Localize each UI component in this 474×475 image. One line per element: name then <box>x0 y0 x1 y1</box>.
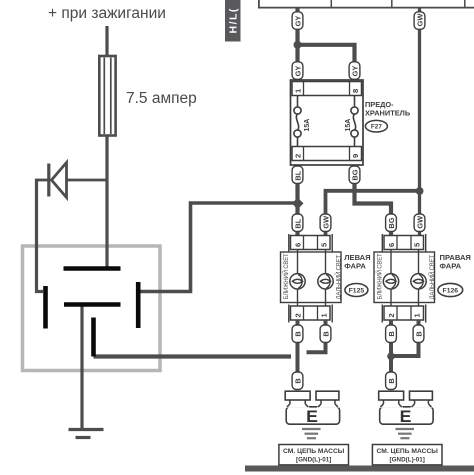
svg-text:ДАЛЬНИЙ СВЕТ: ДАЛЬНИЙ СВЕТ <box>428 255 436 300</box>
svg-text:15A: 15A <box>304 119 311 132</box>
ground point E right <box>379 391 433 426</box>
wire relay to BL junction <box>139 203 295 292</box>
connector GY pin1 <box>292 62 303 80</box>
connector BL pin2 <box>292 166 303 184</box>
fuse element 15A left <box>294 96 301 147</box>
ground hatch left <box>302 429 321 438</box>
svg-text:6: 6 <box>293 243 302 247</box>
junction BL <box>292 198 304 210</box>
connector B left ground <box>292 372 303 390</box>
svg-text:15A: 15A <box>345 119 352 132</box>
wire right lamp pin2 B down <box>389 320 393 373</box>
svg-text:2: 2 <box>293 313 302 317</box>
svg-text:БЛИЖНИЙ СВЕТ: БЛИЖНИЙ СВЕТ <box>282 253 290 299</box>
wire left lamp pin2 B down <box>296 320 300 373</box>
svg-text:9: 9 <box>351 154 360 158</box>
ground symbol <box>69 430 104 438</box>
ground point E left <box>285 391 339 426</box>
wire BL fuse output <box>295 165 299 235</box>
designator F125 <box>345 284 368 297</box>
wire relay lower contact to left headlamp ground <box>94 354 292 358</box>
label left lamp <box>344 253 370 270</box>
note box right ground <box>372 445 442 465</box>
wire BG fuse output <box>355 165 392 235</box>
svg-text:ФАРА: ФАРА <box>344 261 366 270</box>
wire GY from switch <box>295 8 299 81</box>
connector BL left lamp <box>292 214 303 232</box>
svg-text:F27: F27 <box>371 124 382 131</box>
connector B right ground <box>386 372 397 390</box>
connector B left lamp pin2 <box>292 325 303 343</box>
connector GY top <box>292 12 303 30</box>
svg-text:ДАЛЬНИЙ СВЕТ: ДАЛЬНИЙ СВЕТ <box>335 255 343 300</box>
wire diode to main wire <box>66 179 107 182</box>
relay contact left bar <box>43 286 48 329</box>
connector GY pin8 <box>349 62 360 80</box>
svg-text:2: 2 <box>293 154 302 158</box>
relay contact lower bar <box>91 318 96 357</box>
svg-text:GW: GW <box>415 216 424 229</box>
svg-text:F126: F126 <box>443 288 459 295</box>
svg-text:BG: BG <box>350 169 359 180</box>
svg-text:[GND(L)-01]: [GND(L)-01] <box>296 456 331 463</box>
wire ignition to fuse <box>105 26 108 56</box>
wire GY branch to pin 8 <box>298 45 355 81</box>
svg-text:СМ. ЦЕПЬ МАССЫ: СМ. ЦЕПЬ МАССЫ <box>377 448 439 455</box>
svg-text:B: B <box>387 378 396 383</box>
svg-text:GW: GW <box>321 216 330 229</box>
svg-text:2: 2 <box>387 313 396 317</box>
svg-text:B: B <box>387 331 396 336</box>
svg-text:E: E <box>306 408 318 426</box>
connector BG right lamp <box>386 214 397 232</box>
fuse 7.5A <box>99 56 115 136</box>
svg-text:GW: GW <box>415 14 424 27</box>
H/L switch label box <box>225 0 241 42</box>
junction GW <box>416 187 424 195</box>
connector B right lamp pin2 <box>386 325 397 343</box>
wire GW from switch <box>418 8 421 235</box>
wire diode left lead <box>37 179 49 182</box>
svg-text:H/L(: H/L( <box>228 7 240 33</box>
relay contact top bar <box>64 266 121 271</box>
connector BG pin9 <box>349 166 360 184</box>
svg-text:+ при зажигании: + при зажигании <box>48 5 166 22</box>
svg-text:ХРАНИТЕЛЬ: ХРАНИТЕЛЬ <box>365 108 411 117</box>
fuse element 15A right <box>351 96 358 147</box>
svg-text:GY: GY <box>293 16 302 27</box>
connector B right lamp pin1 <box>413 325 424 343</box>
svg-text:B: B <box>293 331 302 336</box>
svg-text:GY: GY <box>293 66 302 77</box>
diode D1 <box>49 163 67 198</box>
wire relay middle contact to ground <box>80 305 83 430</box>
svg-text:6: 6 <box>387 243 396 247</box>
designator F126 <box>438 283 463 296</box>
svg-text:BG: BG <box>387 217 396 228</box>
svg-text:ФАРА: ФАРА <box>440 261 462 270</box>
fuse box F27 <box>291 80 364 165</box>
note box left ground <box>279 445 349 465</box>
wire GW branch to left headlamp <box>326 191 420 235</box>
svg-text:BL: BL <box>293 218 302 228</box>
connector GW left lamp <box>320 214 331 232</box>
svg-text:[GND(L)-01]: [GND(L)-01] <box>390 456 425 463</box>
connector GW top <box>414 12 425 30</box>
connector GW right lamp <box>414 214 425 232</box>
svg-text:F125: F125 <box>349 288 365 295</box>
wire fuse to relay <box>105 136 108 268</box>
label right lamp <box>440 253 471 270</box>
label fuse text <box>365 100 411 117</box>
svg-text:E: E <box>400 408 412 426</box>
relay K1 box <box>23 246 161 371</box>
svg-text:8: 8 <box>351 89 360 93</box>
svg-text:B: B <box>293 378 302 383</box>
right headlamp F126 <box>374 234 436 323</box>
left headlamp F125 <box>281 234 343 323</box>
svg-text:7.5 ампер: 7.5 ампер <box>126 90 197 107</box>
connector B left lamp pin1 <box>320 325 331 343</box>
junction right lamp ground <box>387 353 395 361</box>
svg-text:GY: GY <box>350 66 359 77</box>
wire diode anode down to relay <box>37 179 44 292</box>
svg-text:СМ. ЦЕПЬ МАССЫ: СМ. ЦЕПЬ МАССЫ <box>283 448 345 455</box>
wire left lamp pin1 B elbow <box>307 320 326 352</box>
svg-text:B: B <box>321 331 330 336</box>
relay contact right bar <box>136 282 141 328</box>
svg-text:BL: BL <box>293 170 302 180</box>
svg-text:B: B <box>414 331 423 336</box>
frame bottom bar <box>245 466 474 472</box>
switch connector block <box>258 0 474 8</box>
ground hatch right <box>396 429 415 438</box>
svg-text:БЛИЖНИЙ СВЕТ: БЛИЖНИЙ СВЕТ <box>376 253 384 299</box>
relay contact middle bar <box>64 302 121 307</box>
wire right lamp pin1 B elbow <box>394 320 419 356</box>
junction GY <box>294 41 302 49</box>
designator F27 <box>365 120 387 132</box>
